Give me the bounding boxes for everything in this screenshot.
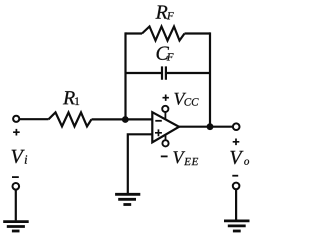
terminal output bottom: [233, 183, 240, 190]
op-amp U1: [152, 112, 179, 142]
VCC pin circle: [162, 106, 168, 112]
wire input ground lead: [15, 190, 17, 221]
label CF: [157, 46, 174, 60]
VEE minus sign: [161, 155, 168, 157]
terminal input top: [13, 116, 19, 122]
wire left feedback vertical: [124, 32, 126, 119]
wire top feedback horizontal: [126, 32, 211, 34]
input plus sign: [13, 129, 20, 136]
wire input to R1: [19, 118, 48, 120]
VCC plus sign: [163, 95, 169, 101]
label Vi: [12, 150, 28, 164]
capacitor CF: [162, 66, 166, 79]
terminal input bottom: [13, 183, 20, 190]
wire non-inverting input: [128, 134, 153, 193]
label Vo: [230, 151, 249, 165]
op-amp minus input sign: [155, 120, 162, 122]
op-amp plus input sign: [155, 129, 162, 136]
label VEE: [173, 151, 198, 165]
VCC pin stub: [164, 112, 166, 120]
label VCC: [174, 93, 198, 106]
wire right feedback vertical: [209, 32, 211, 126]
output plus sign: [233, 139, 240, 146]
wire op-amp output: [179, 126, 233, 128]
ground non-inverting: [115, 194, 140, 204]
node junction inverting input: [122, 116, 129, 123]
label R1: [63, 91, 79, 105]
VEE pin circle: [162, 140, 168, 146]
node junction output: [207, 123, 214, 130]
ground input: [3, 222, 29, 231]
VEE pin stub: [165, 135, 167, 141]
wire capacitor branch horizontal: [126, 72, 211, 74]
wire R1 to op-amp inverting input: [92, 118, 153, 120]
resistor R1: [49, 112, 92, 126]
input minus sign: [12, 176, 19, 178]
label RF: [155, 6, 173, 20]
ground output: [224, 221, 250, 231]
terminal output top: [233, 123, 240, 130]
output minus sign: [232, 175, 238, 177]
wire output ground lead: [235, 189, 237, 220]
resistor RF: [142, 27, 185, 41]
